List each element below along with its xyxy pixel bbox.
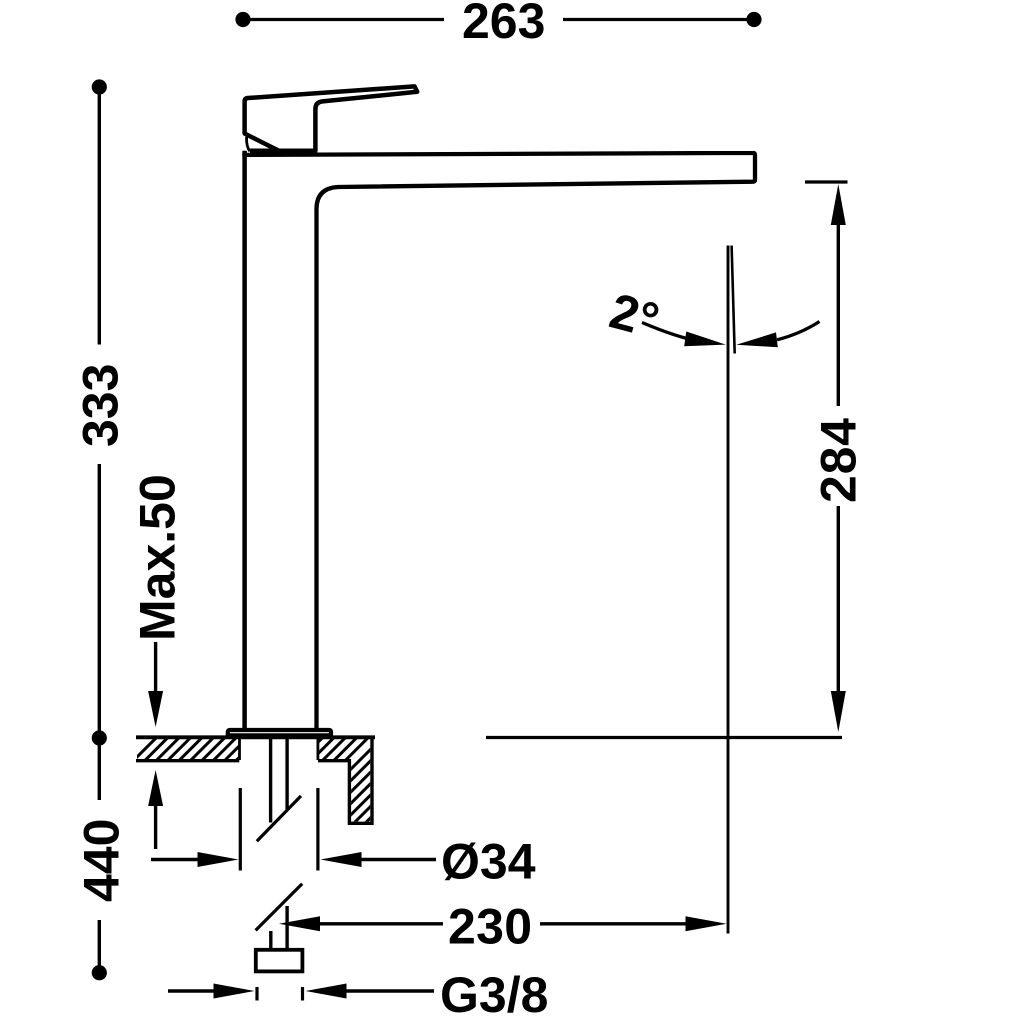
hole right edge [316,739,319,760]
dimension 440: lower segment [98,920,101,973]
svg-text:Ø34: Ø34 [441,834,536,890]
dimension G3/8: left tick [255,987,258,1001]
dimension 263: line right segment [563,18,754,21]
dimension O34: right-pointing arrowhead [198,852,239,867]
dimension 230: left line [320,922,443,925]
angle 2deg: left arc arrowhead [684,332,726,347]
dimension Max.50: down arrowhead [148,691,163,727]
dimension G3/8: right tick [301,987,304,1001]
dimension 230: left-pointing arrowhead [279,916,320,931]
countertop top line [136,735,375,739]
countertop reference line extension [486,736,842,739]
svg-text:440: 440 [74,819,130,902]
faucet lever and handle base outline [245,86,418,151]
svg-text:263: 263 [462,0,545,49]
base flange outline [228,730,331,737]
svg-text:333: 333 [73,364,129,447]
dimension 284: upper shaft [837,225,840,406]
dimension Max.50: lower shaft [154,806,157,849]
countertop right section outline [318,737,372,823]
dimension Max.50: upper shaft [154,642,157,694]
dimension 333: bottom dot [92,730,107,745]
supply rod upper break slash [257,796,301,841]
hole left edge [238,739,241,760]
dimension 284: lower shaft [837,506,840,691]
supply rod lower break slash [256,884,303,931]
dimension 230: right line [540,922,686,925]
dimension 263: line left segment [243,18,444,21]
dimension 333: upper segment [98,87,101,345]
angle 2deg: tilted line [732,246,735,354]
dimension 284: up arrowhead [831,184,846,225]
dimension O34: right tick [316,788,319,871]
svg-text:230: 230 [448,899,532,955]
dimension 440: upper segment [98,738,101,800]
dimension 284: down arrowhead [831,691,846,732]
dimension 263: right dot [746,12,761,27]
countertop left hatching [130,736,261,764]
angle 2deg: left arc [642,323,700,342]
dimension 333: lower segment [98,464,101,738]
countertop right hatching [230,730,470,830]
angle 2deg: right arc arrowhead [736,332,778,347]
handle base bottom bar [250,149,317,154]
dimension 333: top dot [92,79,107,94]
supply rod upper left line [269,739,272,823]
dimension O34: left tick [239,788,242,871]
svg-text:G3/8: G3/8 [440,967,548,1023]
handle base chamfer [245,134,279,151]
faucet body left edge [242,151,247,728]
dimension G3/8: right-pointing arrowhead [214,984,255,999]
dimension O34: left-pointing arrowhead [321,852,362,867]
dimension 284: top tick [805,180,848,183]
spout and body right outline [242,153,755,728]
dimension O34: left line [151,858,200,861]
dimension 263: left dot [235,12,250,27]
handle base corner arc [247,137,250,152]
svg-text:284: 284 [811,418,867,503]
dimension O34: right line [361,858,436,861]
connection nut [256,950,303,972]
dimension 440: bottom dot [92,965,107,980]
dimension Max.50: up arrowhead [148,770,163,806]
angle 2deg: vertical reference line [727,246,730,934]
supply rod lower right line [285,906,288,950]
angle 2deg: right arc [777,322,820,340]
dimension 230: right-pointing arrowhead [686,916,727,931]
svg-text:Max.50: Max.50 [130,474,186,641]
supply rod lower left line [269,931,272,950]
base flange inner line [228,733,331,735]
dimension G3/8: right line [346,989,434,992]
supply rod upper right line [285,739,288,809]
countertop bottom line left [136,759,239,762]
dimension G3/8: left line [168,989,215,992]
dimension G3/8: left-pointing arrowhead [306,984,347,999]
